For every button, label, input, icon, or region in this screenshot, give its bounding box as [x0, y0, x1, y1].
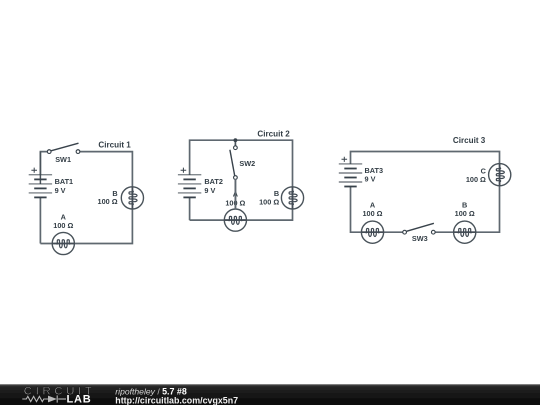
svg-text:Circuit 1: Circuit 1 [98, 140, 131, 149]
svg-text:9 V: 9 V [204, 186, 215, 195]
svg-text:Circuit 3: Circuit 3 [453, 136, 486, 145]
svg-text:LAB: LAB [67, 394, 92, 405]
svg-text:SW2: SW2 [239, 159, 255, 168]
svg-text:9 V: 9 V [55, 186, 66, 195]
svg-text:9 V: 9 V [365, 175, 376, 184]
svg-text:http://circuitlab.com/cvgx5n7: http://circuitlab.com/cvgx5n7 [115, 395, 238, 405]
svg-text:SW3: SW3 [412, 234, 428, 243]
svg-text:SW1: SW1 [55, 155, 71, 164]
svg-text:100 Ω: 100 Ω [259, 198, 279, 207]
svg-text:Circuit 2: Circuit 2 [257, 130, 290, 139]
svg-text:100 Ω: 100 Ω [362, 209, 382, 218]
svg-text:100 Ω: 100 Ω [455, 209, 475, 218]
svg-text:100 Ω: 100 Ω [98, 197, 118, 206]
svg-text:100 Ω: 100 Ω [53, 221, 73, 230]
svg-text:100 Ω: 100 Ω [466, 175, 486, 184]
